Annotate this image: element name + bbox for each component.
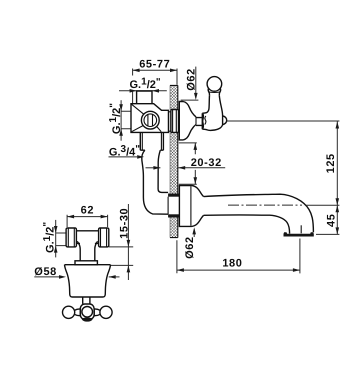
dimension 45 [316, 205, 339, 234]
right knob [100, 306, 112, 318]
union nut at wall [171, 110, 179, 133]
svg-text:Ø62: Ø62 [184, 236, 196, 259]
port circle inner [144, 114, 157, 127]
dimension 180 [177, 239, 300, 274]
corner diagonals [132, 104, 162, 131]
handle stem [196, 113, 202, 129]
dimension 65-77 [133, 58, 177, 72]
dimension G.1/2 top port [119, 89, 167, 93]
label G.1/2 front rotated [42, 220, 66, 258]
label Ø62 handle [181, 67, 199, 101]
spout [204, 194, 314, 236]
spout escutcheon [179, 186, 203, 227]
collar [75, 261, 97, 265]
right arm [94, 309, 100, 316]
dimension 62 [67, 205, 108, 227]
spout nipple through wall [168, 194, 179, 218]
dimension 125 [306, 122, 339, 206]
center boss [80, 304, 94, 319]
cross handle [63, 297, 113, 322]
tube [76, 231, 98, 244]
dimension 15-30 [109, 204, 133, 280]
wire [132, 69, 134, 104]
dimension 20-32 vertical between escutcheons [179, 143, 197, 184]
wire [176, 69, 178, 85]
label G.3/4 with leader [109, 144, 145, 159]
svg-text:62: 62 [81, 205, 94, 217]
svg-text:65-77: 65-77 [139, 58, 170, 70]
left nut [66, 228, 76, 247]
leader handle centerline [227, 120, 340, 122]
valve body side view [131, 91, 179, 132]
handle escutcheon [179, 102, 196, 140]
left arm [74, 309, 80, 316]
label 20-32 with leader to wall [146, 157, 226, 170]
left knob [63, 306, 75, 318]
spout outlet flange [284, 232, 314, 236]
svg-text:180: 180 [222, 257, 242, 269]
label Ø58 with leader [34, 266, 119, 279]
bottom spoke [82, 318, 93, 322]
T vertical [77, 241, 97, 260]
T valve front [65, 228, 111, 297]
bottom pipe G3/4 [140, 132, 168, 214]
svg-text:45: 45 [326, 214, 338, 227]
body block [131, 104, 169, 133]
svg-text:20-32: 20-32 [191, 157, 222, 169]
spout centerline [228, 204, 302, 206]
screw slot [148, 114, 153, 126]
label Ø62 spout [184, 227, 196, 258]
svg-text:125: 125 [325, 153, 337, 173]
wall [170, 85, 178, 237]
right nut [99, 228, 109, 247]
bell escutcheon [65, 265, 111, 297]
top pipe [137, 91, 152, 104]
lever handle [202, 77, 226, 131]
port circle outer [141, 111, 159, 129]
label G.1/2 left rotated [108, 100, 131, 141]
collar thin [169, 112, 171, 131]
